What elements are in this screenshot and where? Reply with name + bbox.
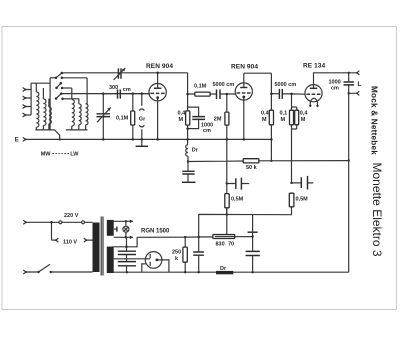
svg-text:300: 300 [109,85,118,91]
svg-text:RE 134: RE 134 [303,63,326,70]
svg-text:M: M [301,117,306,123]
svg-text:5000 cm: 5000 cm [213,82,235,88]
svg-text:830: 830 [216,242,225,248]
svg-text:70: 70 [228,242,234,248]
svg-text:E: E [15,138,19,144]
svg-text:RGN 1500: RGN 1500 [141,229,170,235]
svg-text:Gr: Gr [139,116,146,122]
svg-text:0,5M: 0,5M [296,197,309,203]
svg-text:cm: cm [331,86,339,92]
svg-text:0,4: 0,4 [300,111,309,117]
svg-text:Monette Elektro 3: Monette Elektro 3 [370,163,384,257]
svg-text:M: M [281,117,286,123]
svg-text:0,5M: 0,5M [231,197,244,203]
svg-text:0,4: 0,4 [261,111,270,117]
svg-text:110 V: 110 V [63,240,77,246]
svg-text:M: M [262,117,267,123]
svg-text:LW: LW [70,151,79,157]
svg-text:50 k: 50 k [246,165,258,171]
svg-text:REN 904: REN 904 [231,64,258,71]
svg-text:cm: cm [203,128,211,134]
svg-text:Dr: Dr [192,148,199,154]
svg-text:REN 904: REN 904 [146,63,173,70]
svg-text:MW: MW [41,151,52,157]
svg-text:2M: 2M [214,117,222,123]
svg-text:0,4: 0,4 [178,111,187,117]
svg-text:L: L [358,81,362,88]
svg-text:0,1: 0,1 [280,111,288,117]
svg-text:5000 cm: 5000 cm [275,82,297,88]
svg-text:Mock & Nettebek: Mock & Nettebek [370,86,379,155]
svg-text:0,1M: 0,1M [116,116,129,122]
svg-text:250: 250 [172,250,181,256]
svg-text:0,1M: 0,1M [194,84,207,90]
svg-text:Dr: Dr [220,266,227,272]
svg-text:M: M [179,117,184,123]
svg-text:220 V: 220 V [64,213,79,219]
svg-text:cm: cm [123,87,131,93]
